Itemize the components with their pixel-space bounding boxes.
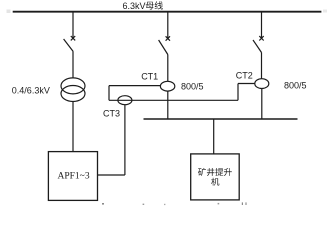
scan artifact left of bus <box>7 10 11 14</box>
label glyph 机 of ji <box>211 178 219 186</box>
bus lower feeder bus <box>144 118 298 120</box>
APF1~3 box <box>48 152 97 201</box>
scan artifact caption tick 1 <box>102 203 104 205</box>
label glyph 线 of muxian <box>155 1 163 9</box>
switch QS3 blade <box>253 40 262 53</box>
svg-text:0.4/6.3kV: 0.4/6.3kV <box>12 86 50 96</box>
svg-text:6.3kV: 6.3kV <box>123 1 146 11</box>
scan artifact caption marks <box>242 202 243 205</box>
svg-text:CT2: CT2 <box>236 71 253 81</box>
wire transformer to APF <box>72 102 74 152</box>
label glyph 升 of kuangjingtisheng <box>224 168 232 176</box>
svg-text:800/5: 800/5 <box>284 81 307 91</box>
transformer T1 primary circle <box>61 78 85 94</box>
scan artifact caption tick 3 <box>164 204 165 205</box>
scan artifact caption tick 4 <box>218 203 220 205</box>
svg-text:800/5: 800/5 <box>181 82 204 92</box>
svg-text:APF1~3: APF1~3 <box>58 172 90 182</box>
wire CT3 to APF <box>98 174 125 176</box>
CT3 current transformer <box>118 96 132 105</box>
switch QS1 blade <box>64 39 74 52</box>
scan artifact right of bus <box>323 10 327 13</box>
wire branch1 to transformer <box>72 52 74 79</box>
switch QS2 blade <box>159 40 168 55</box>
bus 6.3kV busbar <box>13 11 322 13</box>
wire secondary to CT2 <box>238 83 255 85</box>
wire hoist drop <box>213 119 215 154</box>
wire secondary right vertical <box>237 84 239 101</box>
wire CT1 to lower bus <box>167 91 169 119</box>
wire branch3 to CT2 <box>261 53 263 79</box>
label glyph 母 of muxian <box>146 2 154 10</box>
wire branch1 upper <box>72 12 74 38</box>
wire branch2 upper <box>167 12 169 38</box>
wire secondary left vertical <box>108 86 110 101</box>
scan artifact caption tick 2 <box>143 204 145 205</box>
svg-text:CT1: CT1 <box>141 72 158 82</box>
label glyph 井 of kuangjingtisheng <box>207 168 215 176</box>
label glyph 提 of kuangjingtisheng <box>215 168 223 176</box>
svg-text:CT3: CT3 <box>103 108 120 118</box>
CT1 current transformer <box>160 81 174 91</box>
wire branch3 upper <box>261 12 263 38</box>
switch QS1 x-mark <box>71 36 75 40</box>
hoist machine box <box>191 154 240 200</box>
wire secondary lower horizontal <box>109 99 238 101</box>
transformer T1 secondary circle <box>61 86 85 102</box>
wire CT2 to lower bus <box>261 89 263 120</box>
CT2 current transformer <box>255 79 269 89</box>
switch QS3 x-mark <box>259 36 263 40</box>
wire CT1 secondary horizontal <box>109 85 160 87</box>
label glyph 矿 of kuangjingtisheng <box>198 168 206 176</box>
wire branch2 to CT1 <box>167 55 169 82</box>
wire CT3 down <box>124 105 126 175</box>
switch QS2 x-mark <box>166 36 170 40</box>
